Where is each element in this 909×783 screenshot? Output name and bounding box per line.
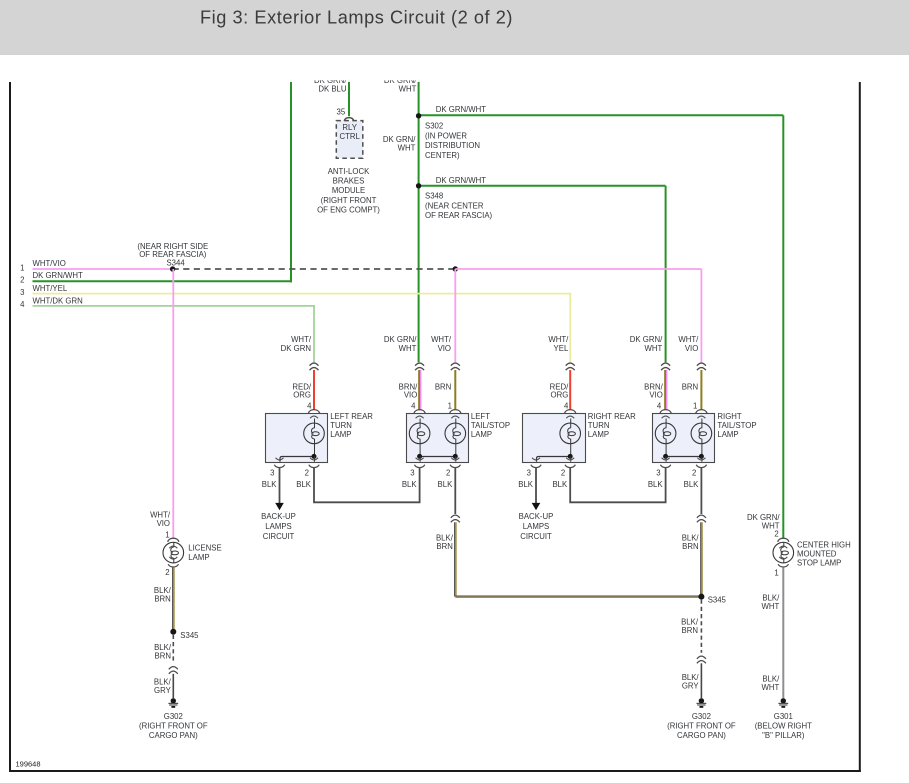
- node S345 right: [698, 594, 704, 600]
- svg-text:WHT/YEL: WHT/YEL: [33, 284, 68, 293]
- svg-text:VIO: VIO: [438, 344, 451, 353]
- arrow to back-up lamps circuit (left): [275, 503, 284, 510]
- wire BLK right tail pin2 down: [700, 467, 702, 514]
- svg-text:2: 2: [692, 469, 696, 478]
- pin 2 connector license: [168, 564, 178, 567]
- wire 4 WHT/DK GRN horizontal: [33, 305, 316, 307]
- svg-text:BACK-UP: BACK-UP: [261, 512, 296, 521]
- svg-text:CARGO PAN): CARGO PAN): [149, 731, 198, 740]
- svg-text:TAIL/STOP: TAIL/STOP: [471, 421, 510, 430]
- wire BLK/GRY license down: [172, 674, 174, 698]
- svg-text:BLK: BLK: [552, 480, 568, 489]
- svg-text:LICENSE: LICENSE: [188, 544, 221, 553]
- svg-text:LAMP: LAMP: [188, 553, 209, 562]
- wire BRN/VIO (right tail DK GRN/WHT feed): [664, 370, 666, 410]
- wire WHT/VIO vertical left tail: [454, 269, 456, 362]
- svg-text:CIRCUIT: CIRCUIT: [520, 532, 552, 541]
- svg-text:WHT/DK GRN: WHT/DK GRN: [33, 296, 83, 305]
- svg-text:G302: G302: [692, 712, 711, 721]
- svg-text:DK GRN/WHT: DK GRN/WHT: [33, 271, 83, 280]
- wire 1 WHT/VIO horizontal: [33, 268, 173, 270]
- node S344 right junction: [453, 266, 458, 271]
- wire BLK/BRN dashed below S345 right: [700, 600, 702, 653]
- diagram border bottom: [9, 770, 861, 772]
- connector inline (left turn lamp feed): [310, 363, 319, 366]
- svg-text:GRY: GRY: [154, 686, 172, 695]
- wire (right tail WHT/VIO feed): [700, 370, 702, 410]
- node S345 left: [170, 629, 176, 635]
- svg-text:BRAKES: BRAKES: [333, 177, 365, 186]
- svg-text:BLK: BLK: [518, 480, 534, 489]
- arrow to back-up lamps circuit (right): [532, 503, 541, 510]
- diagram border right: [859, 82, 861, 772]
- svg-text:S345: S345: [180, 631, 199, 640]
- svg-text:ORG: ORG: [551, 391, 569, 400]
- svg-text:MOUNTED: MOUNTED: [797, 550, 837, 559]
- svg-text:MODULE: MODULE: [332, 186, 365, 195]
- wire BLK/WHT chmsl down: [782, 567, 784, 698]
- svg-text:S344: S344: [166, 259, 185, 268]
- connector inline right tail ground: [697, 515, 706, 518]
- svg-text:BRN: BRN: [682, 382, 698, 391]
- svg-text:2: 2: [305, 469, 309, 478]
- wire (left turn lamp feed): [313, 370, 315, 410]
- svg-text:CTRL: CTRL: [340, 132, 361, 141]
- pin 4 connector (left turn lamp feed): [308, 410, 319, 414]
- svg-text:2: 2: [446, 469, 450, 478]
- pin 1 connector (right tail WHT/VIO feed): [696, 410, 707, 414]
- wire BLK/BRN horizontal to S345: [455, 595, 701, 597]
- svg-text:CENTER HIGH: CENTER HIGH: [797, 540, 851, 549]
- svg-text:BRN: BRN: [155, 652, 171, 661]
- wire BLK to back-up lamps circuit (right): [535, 467, 537, 504]
- svg-text:1: 1: [448, 402, 452, 411]
- op ABS module box RLY CTRL: [336, 121, 363, 159]
- svg-text:BLK: BLK: [262, 480, 278, 489]
- wire BLK/BRN dashed below S345 left: [172, 635, 174, 664]
- wire BLK/GRY right down: [700, 663, 702, 698]
- wire BLK left tail pin2 down: [454, 467, 456, 514]
- pin 4 connector (left tail DK GRN/WHT feed): [414, 410, 425, 414]
- svg-text:2: 2: [165, 568, 169, 577]
- node S344: [170, 266, 175, 271]
- wire 3 WHT/YEL horizontal: [33, 293, 572, 295]
- wire DK GRN/DK BLU into ABS module: [348, 82, 350, 116]
- svg-text:DISTRIBUTION: DISTRIBUTION: [425, 141, 480, 150]
- wire WHT/VIO to license lamp: [172, 269, 174, 539]
- connector inline (right turn lamp feed): [566, 363, 575, 366]
- ground G301: [781, 698, 786, 703]
- svg-text:S345: S345: [708, 595, 727, 604]
- svg-text:G301: G301: [774, 712, 793, 721]
- svg-text:35: 35: [337, 108, 346, 117]
- wire BLK to back-up lamps circuit (left): [279, 467, 281, 504]
- svg-text:LAMP: LAMP: [717, 430, 738, 439]
- svg-text:1: 1: [20, 263, 24, 272]
- ground G302 left: [171, 698, 176, 703]
- svg-text:BRN: BRN: [682, 542, 698, 551]
- wire DK GRN/WHT S302 horizontal: [419, 114, 784, 116]
- svg-text:BLK: BLK: [296, 480, 312, 489]
- svg-text:(RIGHT FRONT OF: (RIGHT FRONT OF: [667, 721, 736, 730]
- svg-text:BLK: BLK: [648, 480, 664, 489]
- svg-text:CENTER): CENTER): [425, 151, 460, 160]
- lamp LEFT TAIL/STOP LAMP: [407, 414, 469, 463]
- wire (left tail WHT/VIO feed): [454, 370, 456, 410]
- wire DK GRN/WHT down to CHMSL: [782, 115, 784, 539]
- svg-text:DK GRN: DK GRN: [281, 344, 311, 353]
- svg-text:STOP LAMP: STOP LAMP: [797, 559, 841, 568]
- svg-text:1: 1: [693, 402, 697, 411]
- svg-text:LEFT: LEFT: [471, 412, 490, 421]
- svg-text:RIGHT REAR: RIGHT REAR: [588, 412, 636, 421]
- svg-text:S348: S348: [425, 192, 443, 201]
- connector inline left tail ground: [451, 515, 460, 518]
- pin 4 connector (right tail DK GRN/WHT feed): [660, 410, 671, 414]
- wire BLK/BRN license down: [172, 567, 174, 631]
- svg-text:RIGHT: RIGHT: [717, 412, 741, 421]
- wire 2 DK GRN/WHT horizontal: [33, 280, 293, 282]
- svg-text:2: 2: [561, 469, 565, 478]
- svg-text:WHT: WHT: [762, 602, 780, 611]
- svg-text:4: 4: [307, 402, 312, 411]
- svg-text:Fig 3: Exterior Lamps Circuit: Fig 3: Exterior Lamps Circuit (2 of 2): [200, 7, 513, 27]
- svg-text:2: 2: [20, 276, 24, 285]
- wire BLK right turn pin2 to right tail pin3: [570, 467, 665, 502]
- pin 1 connector license: [168, 538, 179, 542]
- svg-text:TURN: TURN: [330, 421, 352, 430]
- svg-text:4: 4: [411, 402, 416, 411]
- svg-text:S302: S302: [425, 122, 443, 131]
- svg-text:WHT: WHT: [399, 84, 417, 93]
- svg-text:VIO: VIO: [157, 519, 170, 528]
- svg-text:LAMPS: LAMPS: [523, 522, 549, 531]
- svg-text:G302: G302: [164, 712, 183, 721]
- svg-text:YEL: YEL: [554, 344, 569, 353]
- svg-text:OF ENG COMPT): OF ENG COMPT): [317, 205, 380, 214]
- svg-text:VIO: VIO: [404, 391, 417, 400]
- wire DK GRN/WHT main vertical: [418, 82, 420, 362]
- svg-text:LAMP: LAMP: [330, 430, 351, 439]
- svg-text:BLK: BLK: [402, 480, 418, 489]
- svg-text:(RIGHT FRONT OF: (RIGHT FRONT OF: [139, 721, 208, 730]
- svg-text:DK BLU: DK BLU: [318, 84, 347, 93]
- svg-text:BLK/: BLK/: [436, 533, 454, 542]
- svg-text:3: 3: [20, 288, 24, 297]
- pin 1 connector (left tail WHT/VIO feed): [450, 410, 461, 414]
- svg-text:WHT/VIO: WHT/VIO: [33, 259, 66, 268]
- svg-text:3: 3: [656, 469, 660, 478]
- node S348: [416, 183, 421, 188]
- svg-text:TURN: TURN: [588, 421, 610, 430]
- svg-text:WHT: WHT: [762, 683, 780, 692]
- wire BRN/VIO (left tail DK GRN/WHT feed): [418, 370, 420, 410]
- svg-text:WHT: WHT: [398, 144, 416, 153]
- wire WHT/YEL vertical: [569, 293, 571, 363]
- pin 4 connector (right turn lamp feed): [565, 410, 576, 414]
- svg-text:2: 2: [774, 530, 778, 539]
- svg-text:OF REAR FASCIA): OF REAR FASCIA): [425, 211, 493, 220]
- bulb LICENSE LAMP: [163, 542, 184, 563]
- svg-text:BLK/: BLK/: [682, 533, 700, 542]
- pin 1 connector chmsl: [778, 564, 788, 567]
- svg-text:RLY: RLY: [342, 123, 357, 132]
- wire (right turn lamp feed): [569, 370, 571, 410]
- svg-text:BRN: BRN: [154, 594, 170, 603]
- svg-text:(RIGHT FRONT: (RIGHT FRONT: [321, 196, 377, 205]
- wire DK GRN/WHT down to right tail lamp: [665, 186, 667, 362]
- connector inline (right tail DK GRN/WHT feed): [661, 363, 670, 366]
- node S302: [416, 113, 421, 118]
- svg-text:LAMP: LAMP: [471, 430, 492, 439]
- pin 2 connector chmsl: [778, 538, 789, 542]
- svg-text:BLK: BLK: [438, 480, 454, 489]
- connector inline license ground: [169, 667, 178, 670]
- svg-text:(BELOW RIGHT: (BELOW RIGHT: [755, 721, 812, 730]
- wire DK GRN/WHT vertical to wire 2: [290, 82, 292, 282]
- svg-text:4: 4: [20, 300, 25, 309]
- connector inline (right tail WHT/VIO feed): [697, 363, 706, 366]
- svg-text:LEFT REAR: LEFT REAR: [330, 412, 373, 421]
- svg-text:(NEAR CENTER: (NEAR CENTER: [425, 201, 484, 210]
- svg-text:CIRCUIT: CIRCUIT: [263, 532, 295, 541]
- connector inline (left tail WHT/VIO feed): [451, 363, 460, 366]
- svg-text:3: 3: [410, 469, 414, 478]
- svg-text:LAMPS: LAMPS: [265, 522, 291, 531]
- svg-text:"B" PILLAR): "B" PILLAR): [762, 731, 805, 740]
- wire BLK/BRN left tail down: [454, 522, 456, 596]
- svg-text:1: 1: [774, 569, 778, 578]
- clip mask over top of diagram: [0, 55, 909, 80]
- lamp RIGHT TAIL/STOP LAMP: [653, 414, 715, 463]
- wire DK GRN/WHT S348 horizontal: [419, 185, 666, 187]
- svg-text:3: 3: [527, 469, 531, 478]
- svg-text:4: 4: [657, 402, 662, 411]
- svg-text:CARGO PAN): CARGO PAN): [677, 731, 726, 740]
- connector inline (left tail DK GRN/WHT feed): [415, 363, 424, 366]
- svg-text:ORG: ORG: [293, 391, 311, 400]
- svg-text:DK GRN/WHT: DK GRN/WHT: [436, 176, 486, 185]
- bulb CENTER HIGH MOUNTED STOP LAMP: [773, 542, 794, 563]
- svg-text:TAIL/STOP: TAIL/STOP: [717, 421, 756, 430]
- svg-text:BRN: BRN: [435, 382, 451, 391]
- diagram border left: [9, 82, 11, 772]
- svg-text:WHT: WHT: [645, 344, 663, 353]
- wire S344 dashed link: [173, 268, 456, 270]
- wire WHT/VIO horizontal to right tail lamp: [455, 268, 701, 270]
- pin 35 connector: [344, 118, 354, 121]
- lamp RIGHT REAR TURN LAMP: [523, 414, 586, 463]
- ground G302 right: [699, 698, 704, 703]
- wire BLK left turn pin2 to left tail pin3: [314, 467, 420, 502]
- svg-text:WHT: WHT: [399, 344, 417, 353]
- svg-text:BRN: BRN: [436, 542, 452, 551]
- svg-text:VIO: VIO: [685, 344, 698, 353]
- svg-text:LAMP: LAMP: [588, 430, 609, 439]
- lamp LEFT REAR TURN LAMP: [266, 414, 328, 463]
- svg-text:ANTI-LOCK: ANTI-LOCK: [328, 167, 370, 176]
- svg-text:3: 3: [270, 469, 274, 478]
- wire WHT/DK GRN vertical: [313, 305, 315, 362]
- svg-text:VIO: VIO: [649, 391, 662, 400]
- svg-text:BACK-UP: BACK-UP: [519, 512, 554, 521]
- svg-text:1: 1: [165, 530, 169, 539]
- svg-text:DK GRN/WHT: DK GRN/WHT: [436, 105, 486, 114]
- wire BLK/BRN right tail down: [700, 522, 702, 596]
- header bar: [0, 0, 909, 55]
- svg-text:(IN POWER: (IN POWER: [425, 131, 467, 140]
- svg-text:BLK: BLK: [684, 480, 700, 489]
- connector inline right ground: [697, 656, 706, 659]
- wire WHT/VIO vertical right tail: [700, 269, 702, 362]
- svg-text:BRN: BRN: [682, 626, 698, 635]
- svg-text:GRY: GRY: [682, 681, 700, 690]
- svg-text:199648: 199648: [16, 759, 41, 768]
